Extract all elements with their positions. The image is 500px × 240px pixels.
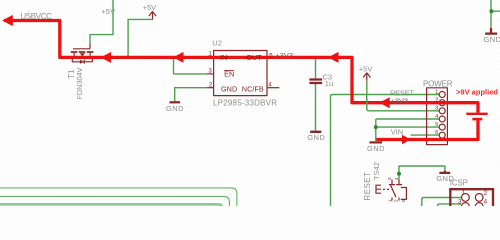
svg-text:OUT: OUT	[246, 53, 262, 62]
svg-text:5: 5	[269, 53, 273, 60]
svg-text:3: 3	[208, 67, 212, 74]
ground symbol under U2	[170, 101, 181, 103]
svg-text:3: 3	[458, 199, 462, 206]
svg-text:+5V: +5V	[101, 7, 115, 16]
svg-text:1: 1	[208, 51, 212, 58]
node junction at POWER gnd	[374, 125, 378, 129]
svg-text:GND: GND	[307, 133, 325, 142]
switch S1 reset TS42	[376, 180, 406, 201]
wire ICSP pin1 net	[422, 198, 462, 207]
svg-text:GND: GND	[367, 144, 385, 153]
ground symbol top right	[485, 28, 497, 34]
EN overline	[224, 69, 234, 71]
svg-text:U2: U2	[212, 39, 222, 48]
+5V supply arrow (top)	[149, 11, 156, 19]
node junction at switch	[397, 172, 401, 176]
node junction under red at C3 tap	[314, 56, 317, 59]
svg-text:FDN304V: FDN304V	[75, 68, 84, 100]
wire nested loop inner thick	[0, 204, 222, 206]
svg-text:1: 1	[462, 189, 466, 196]
wire U2 GND net	[175, 88, 207, 102]
svg-text:ICSP: ICSP	[450, 179, 468, 188]
svg-text:NC/FB: NC/FB	[242, 85, 264, 94]
POWER pin circles	[439, 92, 445, 139]
svg-text:+3V3: +3V3	[275, 51, 293, 60]
svg-text:5: 5	[435, 122, 438, 128]
U2 pin numbers	[208, 51, 273, 89]
op-amp U2 regulator box LP2985	[214, 51, 267, 96]
arrow on +3V3 line	[379, 97, 390, 108]
wire +5V vertical over red	[366, 95, 368, 109]
wire EN net	[174, 58, 207, 74]
transistor T1 FDN304V	[71, 44, 94, 64]
wire top right GND net	[491, 0, 500, 28]
wire POWER gnd vertical over red	[375, 119, 377, 141]
wire nested loop outer (bottom left)	[0, 188, 237, 206]
svg-text:2: 2	[435, 98, 438, 104]
wire ICSP pin3 net	[438, 204, 462, 206]
svg-text:+3V3: +3V3	[391, 96, 409, 105]
wire C3 top	[315, 57, 317, 78]
svg-text:4: 4	[484, 199, 488, 206]
svg-text:+5V: +5V	[143, 3, 157, 12]
ground symbol under C3	[310, 131, 321, 133]
wire C3 bottom to GND	[315, 84, 317, 131]
svg-text:6: 6	[435, 130, 438, 136]
svg-text:2: 2	[209, 82, 213, 89]
node junction under red at x=128	[126, 56, 129, 59]
wire VIN to POWER pin6	[411, 134, 439, 136]
svg-text:>9V applied: >9V applied	[456, 88, 498, 97]
svg-text:3: 3	[435, 106, 438, 112]
U2 pin texts	[220, 53, 264, 93]
U2 pin 4 stub	[267, 87, 279, 89]
arrow on main line after C3	[328, 52, 339, 63]
wire switch to GND	[399, 166, 445, 180]
svg-text:VIN: VIN	[391, 127, 404, 136]
svg-text:GND: GND	[166, 104, 184, 113]
svg-text:IN: IN	[220, 53, 227, 62]
svg-text:+5V: +5V	[359, 64, 373, 73]
wire +5V to POWER pin3	[367, 81, 439, 111]
ground symbol near VIN	[370, 141, 383, 143]
svg-text:1: 1	[435, 89, 438, 95]
node junction top right	[489, 9, 493, 13]
U2 pin 3 stub	[207, 73, 214, 75]
U2 pin 5 stub	[267, 56, 274, 58]
connector ICSP header box	[450, 189, 493, 206]
arrow on VIN return line	[402, 135, 411, 144]
svg-text:USBVCC: USBVCC	[20, 12, 52, 21]
svg-text:RESET: RESET	[363, 172, 372, 201]
POWER pin numbers	[435, 89, 439, 136]
wire +5V supply to main line	[128, 19, 152, 57]
thick highlight: USBVCC wire	[4, 21, 478, 113]
svg-text:1u: 1u	[325, 79, 333, 88]
svg-text:4: 4	[268, 82, 272, 89]
wire POWER pin4	[376, 118, 439, 120]
svg-text:GND: GND	[484, 35, 500, 44]
battery plates	[466, 113, 487, 115]
ICSP pin numbers	[458, 189, 488, 205]
U2 pin 2 stub	[207, 87, 214, 89]
svg-text:GND: GND	[221, 85, 237, 94]
wire RESET net	[331, 95, 440, 207]
connector POWER header box	[427, 88, 448, 145]
svg-text:2: 2	[484, 190, 488, 197]
wire +5V gate net	[90, 0, 113, 44]
ground symbol near switch	[439, 171, 450, 173]
+5V supply arrow (middle)	[363, 73, 370, 81]
arrow USBVCC left	[2, 15, 13, 26]
switch pin numbers	[387, 177, 406, 202]
wire POWER pin5	[376, 126, 439, 128]
wire nested loop middle	[0, 196, 229, 206]
svg-text:POWER: POWER	[423, 80, 453, 89]
ICSP pin circles	[462, 194, 484, 211]
svg-text:TS42: TS42	[372, 162, 381, 180]
arrow on main line after T1	[101, 52, 112, 63]
svg-text:LP2985-33DBVR: LP2985-33DBVR	[213, 99, 277, 108]
arrow on main line before U2	[173, 52, 184, 63]
thick highlight: battery bottom return	[376, 120, 478, 139]
capacitor C3 plates	[309, 80, 322, 84]
